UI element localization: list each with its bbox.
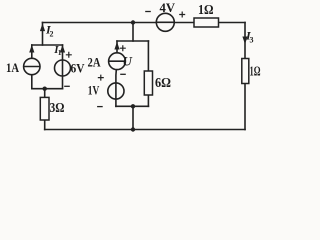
label minus 4V	[145, 11, 151, 13]
junction dot C	[131, 104, 135, 108]
svg-text:6Ω: 6Ω	[155, 76, 171, 91]
wire 1A branch	[31, 45, 33, 89]
junction dot D	[131, 127, 135, 131]
resistor 6ohm	[144, 71, 152, 95]
svg-text:2: 2	[50, 30, 54, 39]
arrow I3 down	[242, 37, 247, 45]
junction dot A	[43, 87, 47, 91]
wire mid lower	[116, 105, 148, 107]
resistor 1ohm right	[242, 59, 249, 84]
wire 3ohm branch	[44, 89, 46, 130]
svg-text:3: 3	[250, 36, 254, 45]
svg-text:1A: 1A	[6, 60, 19, 75]
voltage source 6V	[55, 60, 71, 76]
svg-text:1: 1	[58, 48, 62, 57]
wire second rail	[32, 44, 63, 46]
label plus 6V	[66, 52, 72, 58]
label plus U	[120, 45, 126, 51]
svg-text:4V: 4V	[160, 0, 176, 15]
wire I2 link	[42, 23, 44, 46]
label plus 1V	[98, 75, 104, 81]
wire 6ohm branch	[147, 41, 149, 106]
arrow 1A up	[29, 45, 34, 53]
arrow I2 up	[40, 23, 45, 31]
wire 2A-1V branch	[116, 41, 117, 106]
voltage source 1V	[108, 83, 124, 99]
svg-text:1Ω: 1Ω	[198, 2, 214, 17]
voltage source 4V	[156, 13, 174, 31]
wire top rail	[43, 22, 246, 24]
resistor 1ohm top	[194, 18, 219, 27]
arrow 2A up	[114, 42, 119, 50]
label minus U	[120, 73, 126, 75]
svg-text:U: U	[123, 54, 133, 69]
svg-text:6V: 6V	[71, 61, 86, 76]
label plus 4V	[179, 12, 185, 18]
svg-text:1Ω: 1Ω	[250, 65, 261, 80]
resistor 3ohm	[40, 97, 49, 120]
label minus 6V	[64, 85, 70, 87]
svg-text:3Ω: 3Ω	[50, 101, 65, 116]
wire bottom rail	[45, 129, 245, 131]
wire mid link bottom	[132, 106, 134, 129]
wire right vertical	[244, 23, 246, 130]
current source 2A	[109, 53, 126, 70]
wire left bottom	[32, 88, 63, 90]
wire mid link top	[132, 23, 134, 42]
arrow I1 up	[60, 45, 65, 53]
label minus 1V	[97, 106, 103, 108]
svg-text:2A: 2A	[88, 55, 101, 70]
svg-text:1V: 1V	[88, 83, 100, 98]
wire mid top	[117, 40, 148, 42]
wire 6V branch	[62, 45, 64, 89]
current source 1A	[24, 58, 40, 74]
junction dot B	[131, 20, 135, 24]
